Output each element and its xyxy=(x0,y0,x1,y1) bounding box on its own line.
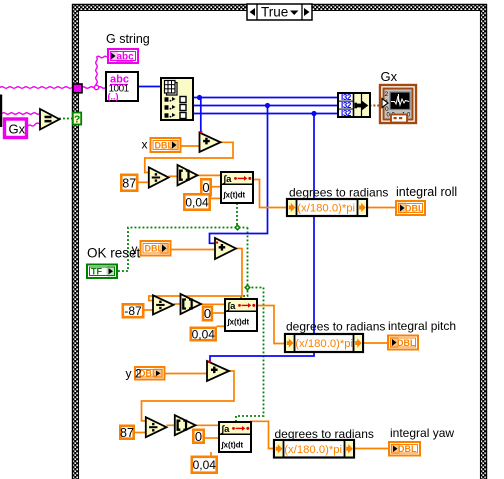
svg-text:∫a: ∫a xyxy=(223,174,233,185)
svg-text:degrees to radians: degrees to radians xyxy=(289,186,388,200)
svg-text:DBL: DBL xyxy=(139,369,158,379)
svg-text:degrees to radians: degrees to radians xyxy=(286,320,385,334)
svg-text:TF: TF xyxy=(91,267,102,277)
svg-text:∫a: ∫a xyxy=(221,424,231,435)
svg-text:integral pitch: integral pitch xyxy=(388,319,456,333)
svg-text:∫a: ∫a xyxy=(227,301,237,312)
svg-text:∫x(t)dt: ∫x(t)dt xyxy=(223,191,246,200)
svg-text:0,04: 0,04 xyxy=(193,458,217,472)
svg-text:x: x xyxy=(142,138,148,152)
svg-text:DBL: DBL xyxy=(398,444,417,454)
svg-text:0,04: 0,04 xyxy=(192,327,216,341)
svg-text:G string: G string xyxy=(106,32,150,46)
svg-text:(x/180.0)*pi: (x/180.0)*pi xyxy=(284,444,342,456)
svg-text:Gx: Gx xyxy=(381,69,398,84)
svg-text:87: 87 xyxy=(120,426,134,440)
svg-text:DBL: DBL xyxy=(145,244,164,254)
svg-text:True: True xyxy=(261,5,288,20)
svg-text:2: 2 xyxy=(385,91,389,98)
svg-text:87: 87 xyxy=(122,176,136,190)
svg-text:0: 0 xyxy=(195,429,202,444)
svg-text:y: y xyxy=(132,242,138,256)
svg-text:∫x(t)dt: ∫x(t)dt xyxy=(227,318,250,327)
svg-text:y 2: y 2 xyxy=(126,367,142,381)
svg-text:I32: I32 xyxy=(341,109,352,118)
svg-text:0: 0 xyxy=(202,180,209,195)
svg-text:(x/180.0)*pi: (x/180.0)*pi xyxy=(295,338,353,350)
svg-text:∫x(t)dt: ∫x(t)dt xyxy=(221,441,244,450)
svg-text:(x/180.0)*pi: (x/180.0)*pi xyxy=(297,203,355,215)
svg-text:integral yaw: integral yaw xyxy=(390,426,454,440)
svg-text:?: ? xyxy=(74,113,80,125)
svg-text:0,04: 0,04 xyxy=(185,195,209,209)
svg-text:DBL: DBL xyxy=(405,203,424,213)
svg-text:degrees to radians: degrees to radians xyxy=(275,427,374,441)
svg-text:DBL: DBL xyxy=(155,140,174,150)
svg-text:Gx: Gx xyxy=(9,122,26,137)
svg-text:(..): (..) xyxy=(108,92,119,102)
svg-text:0: 0 xyxy=(204,306,211,321)
svg-text:DBL: DBL xyxy=(397,338,416,348)
svg-text:integral roll: integral roll xyxy=(396,185,457,199)
svg-text:-87: -87 xyxy=(124,304,142,318)
